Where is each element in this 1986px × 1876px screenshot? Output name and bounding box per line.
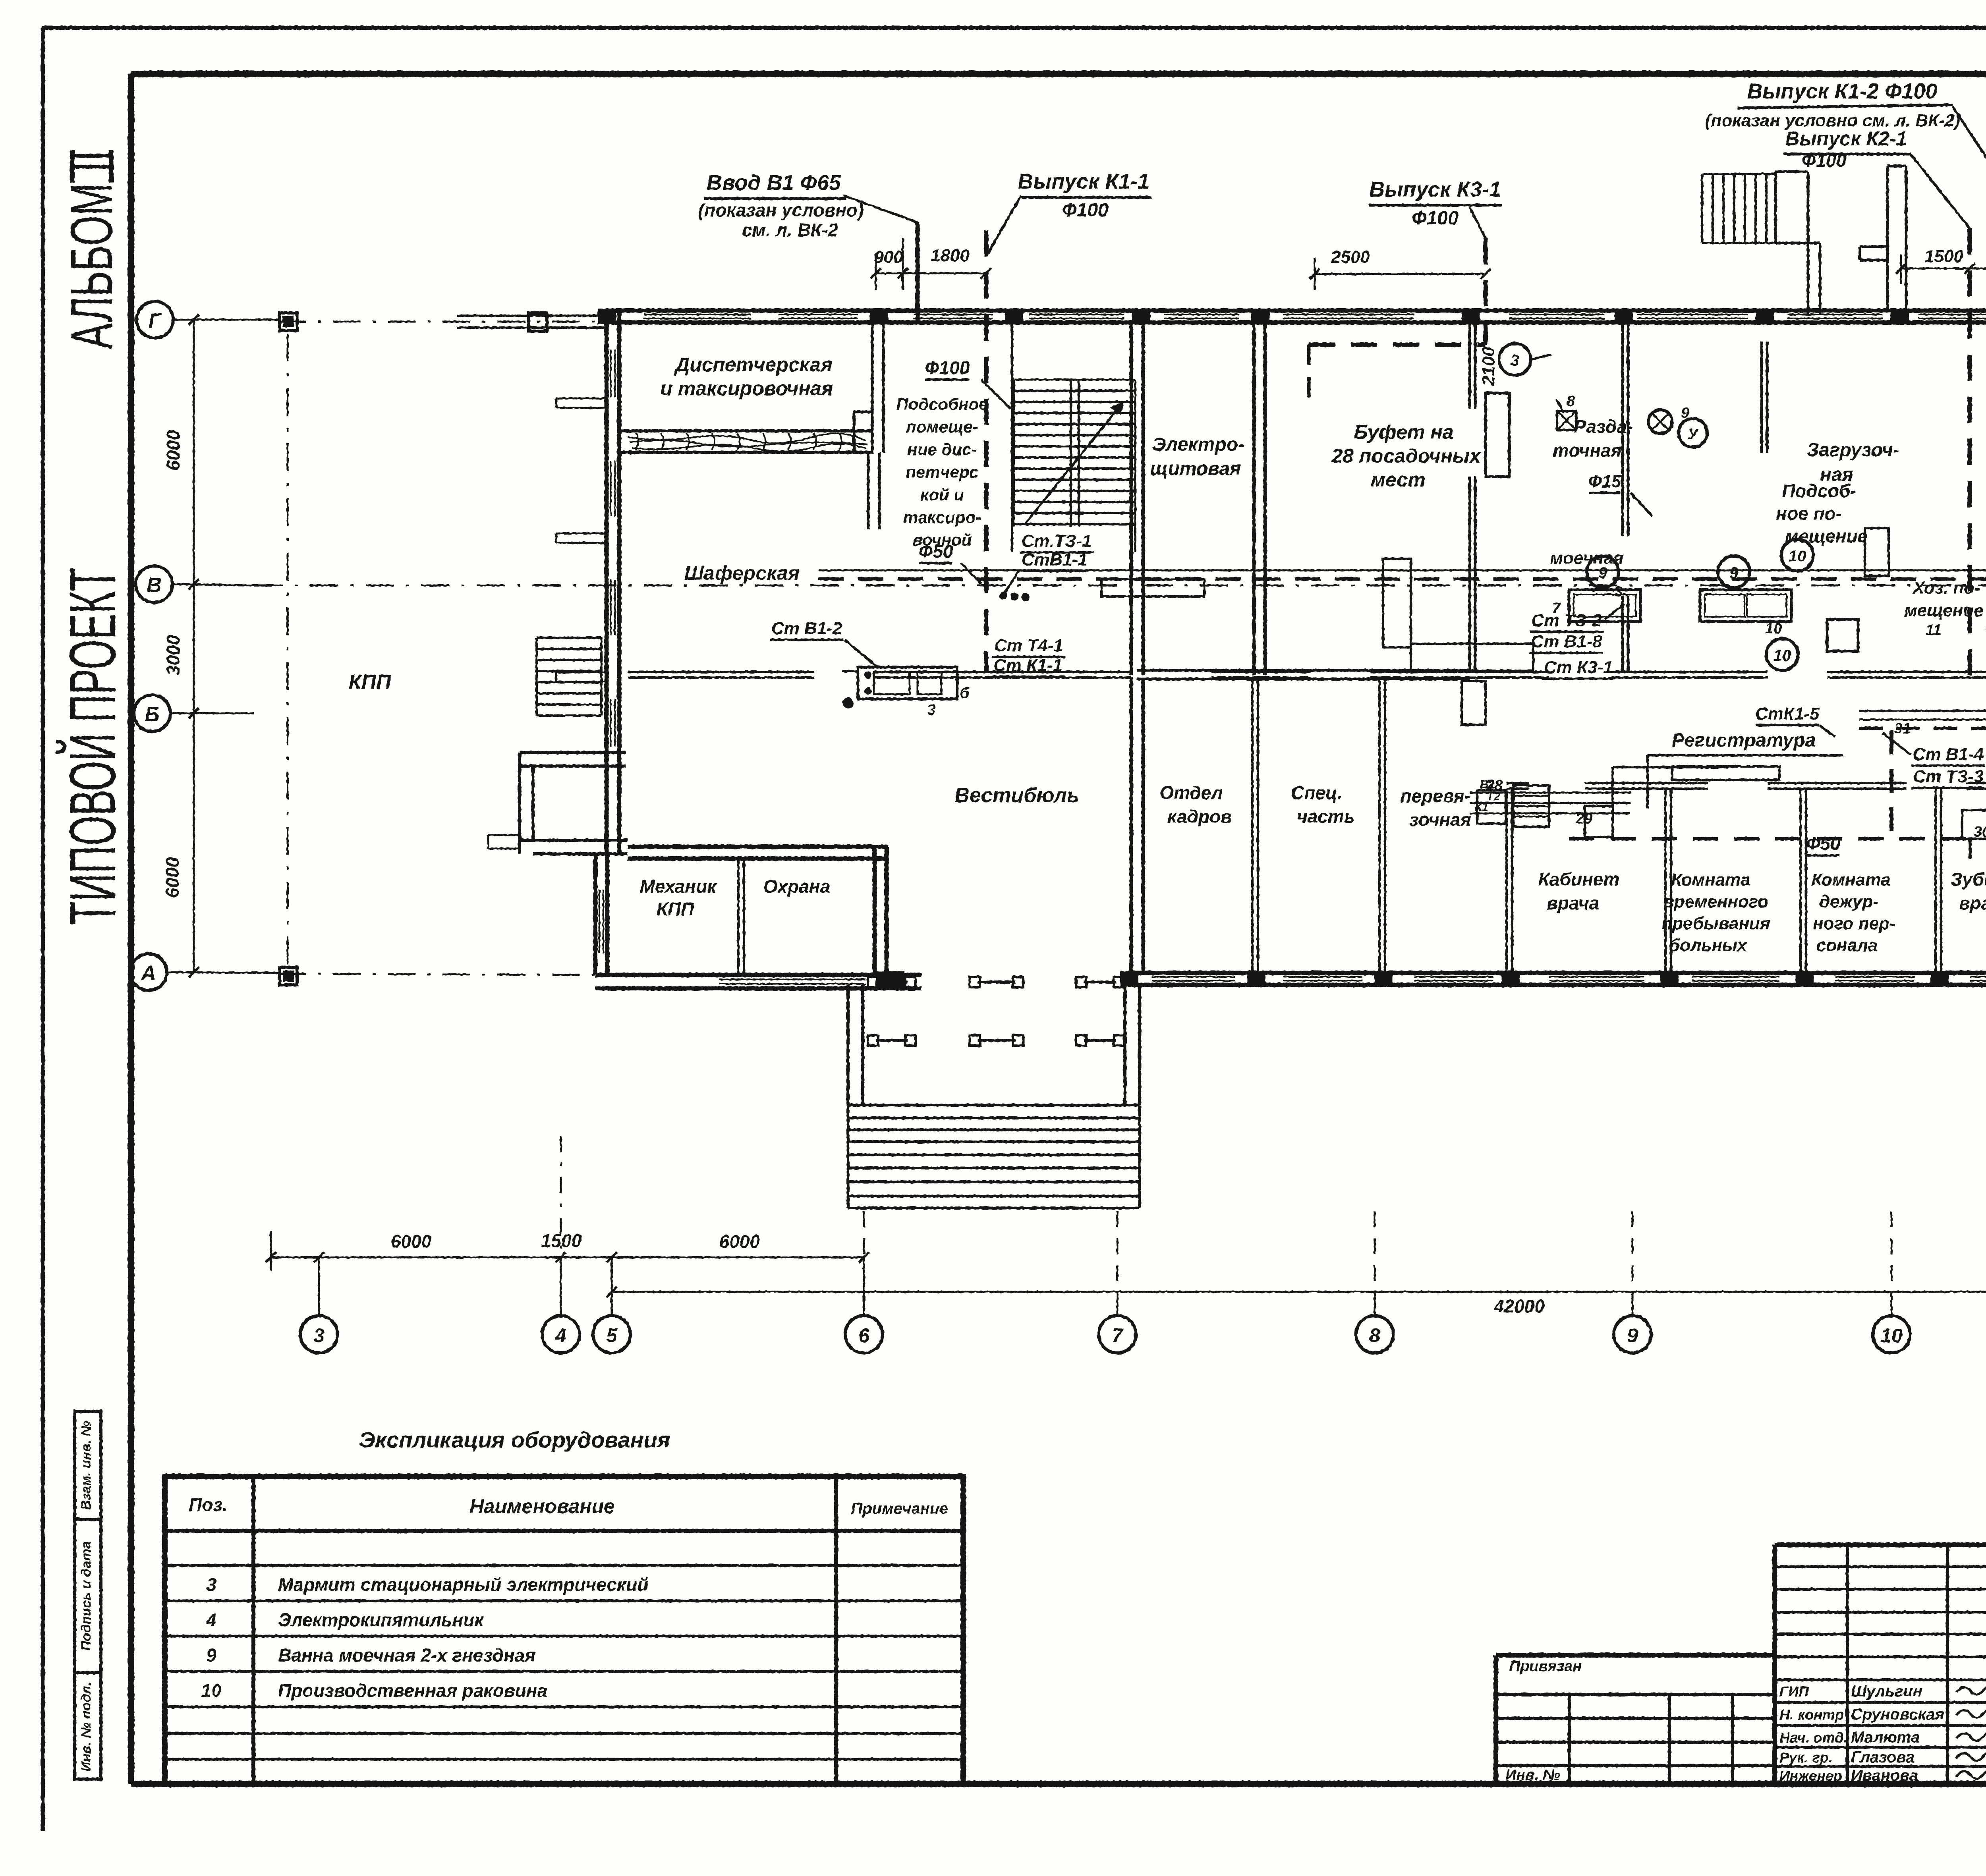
wall left of big stair (1011, 322, 1013, 552)
porch steps (848, 1104, 1140, 1107)
svg-text:мещение: мещение (1904, 601, 1983, 620)
buffet bench vertical (1383, 559, 1411, 647)
svg-text:42000: 42000 (1493, 1296, 1545, 1316)
central appendage walls (1886, 166, 1889, 311)
wash basins Моечная (1569, 590, 1640, 621)
svg-text:4: 4 (555, 1324, 566, 1347)
svg-text:АЛЬБОМ II: АЛЬБОМ II (58, 151, 125, 349)
svg-text:Ф100: Ф100 (925, 357, 970, 378)
left margin stamp strip (75, 1411, 101, 1779)
svg-text:Примечание: Примечание (851, 1500, 949, 1517)
svg-text:кой и: кой и (920, 485, 964, 504)
svg-text:Загрузоч-: Загрузоч- (1806, 440, 1899, 461)
svg-text:врача: врача (1547, 893, 1599, 913)
svg-text:СтВ1-1: СтВ1-1 (1022, 550, 1088, 569)
svg-text:Ф50: Ф50 (1806, 833, 1840, 854)
svg-text:Ст ТЗ-3: Ст ТЗ-3 (1913, 767, 1983, 786)
svg-text:Наименование: Наименование (469, 1495, 615, 1517)
svg-text:моечная: моечная (1550, 548, 1624, 568)
external stair left (axis 9) (1701, 174, 1703, 243)
svg-text:Подсобное: Подсобное (896, 395, 988, 413)
svg-text:Вестибюль: Вестибюль (954, 784, 1079, 807)
registry pipes cluster (1470, 792, 1631, 794)
wall 4193 (1664, 789, 1667, 973)
svg-text:таксиро-: таксиро- (903, 508, 981, 527)
svg-text:9: 9 (1681, 405, 1689, 421)
svg-text:Поз.: Поз. (189, 1494, 227, 1515)
svg-text:6000: 6000 (719, 1231, 760, 1252)
svg-text:3: 3 (206, 1574, 216, 1595)
svg-text:Ст В1-2: Ст В1-2 (771, 619, 842, 638)
svg-text:КПП: КПП (349, 671, 392, 694)
svg-text:8: 8 (1567, 393, 1575, 409)
Раздаточная/Подсобное wall (1621, 322, 1624, 536)
svg-text:3: 3 (1614, 583, 1623, 600)
axis 4 extension dash (560, 1136, 562, 1257)
svg-text:6000: 6000 (391, 1231, 432, 1252)
overall dimension 42000 (612, 1291, 1986, 1293)
small wall below partition (867, 452, 870, 529)
door leaf to Подсобное (854, 412, 872, 452)
lower band radiators (1477, 790, 1506, 824)
svg-text:Ст К3-1: Ст К3-1 (1544, 658, 1613, 677)
svg-text:Ст Т4-1: Ст Т4-1 (994, 636, 1063, 655)
svg-text:часть: часть (1297, 806, 1355, 827)
title block: signature grid (1775, 1542, 1986, 1547)
equipment table frame (165, 1476, 963, 1784)
boiler square 8 (1557, 411, 1576, 430)
wall Электрощитовая/Буфет (1252, 322, 1256, 675)
radiator stripes block (1513, 786, 1549, 827)
svg-text:точная: точная (1553, 440, 1621, 461)
svg-text:9: 9 (206, 1645, 216, 1666)
leaders to risers (1953, 106, 1986, 228)
corridor south wall (right half) (1507, 782, 1529, 784)
svg-text:Ф100: Ф100 (1062, 200, 1109, 221)
svg-text:Ст К1-1: Ст К1-1 (993, 656, 1063, 675)
svg-text:Б: Б (145, 703, 160, 726)
axis circle Г (137, 301, 173, 338)
fence axis line 3 vertical (287, 334, 289, 965)
axis circle 4 (542, 1316, 580, 1353)
svg-text:мещение: мещение (1785, 526, 1868, 546)
wood partition Диспетчерская/Шаферская (619, 429, 872, 432)
svg-text:зочная: зочная (1409, 809, 1471, 830)
svg-text:Экспликация оборудования: Экспликация оборудования (359, 1427, 670, 1452)
Буфет right wall (1468, 322, 1471, 409)
axis circle А (130, 954, 167, 990)
Подсобное right wall (1760, 342, 1763, 453)
north exterior wall (606, 309, 1986, 313)
svg-text:Н. контр: Н. контр (1779, 1706, 1844, 1723)
svg-text:10: 10 (1773, 647, 1791, 664)
secondary bundle right (1859, 710, 1986, 712)
wall right of Диспетчерская (871, 322, 874, 453)
svg-text:30: 30 (1974, 824, 1986, 840)
svg-text:Комната: Комната (1671, 870, 1750, 890)
svg-text:Выпуск К3-1: Выпуск К3-1 (1369, 178, 1501, 201)
svg-text:Комната: Комната (1811, 870, 1890, 890)
svg-text:Регистратура: Регистратура (1672, 730, 1816, 751)
svg-text:Ф100: Ф100 (1412, 208, 1459, 229)
svg-text:ного пер-: ного пер- (1813, 914, 1895, 933)
svg-text:Зубной: Зубной (1951, 869, 1986, 890)
svg-text:3: 3 (1511, 352, 1519, 369)
window stub at step wall (488, 834, 520, 836)
stair arrow (1025, 401, 1124, 524)
svg-text:Взам. инв. №: Взам. инв. № (79, 1421, 94, 1510)
svg-text:Ст ТЗ-2: Ст ТЗ-2 (1531, 611, 1602, 630)
svg-text:Выпуск К1-2 Ф100: Выпуск К1-2 Ф100 (1747, 79, 1937, 103)
wall Спец.часть/перевязочная (1378, 677, 1381, 973)
svg-text:4: 4 (206, 1610, 216, 1630)
bottom dimension line left (271, 1256, 864, 1258)
svg-text:мест: мест (1371, 469, 1426, 491)
dim 1500x3 (1901, 268, 1986, 270)
svg-text:ное по-: ное по- (1776, 503, 1842, 524)
axis line А (167, 972, 278, 973)
flag symbol 8 (1556, 399, 1564, 413)
west exterior wall (605, 311, 609, 854)
dim 2500 (1315, 273, 1486, 275)
west lower step wall (L) (520, 751, 626, 754)
svg-text:помеще-: помеще- (906, 417, 978, 436)
north wall piers (598, 309, 616, 324)
svg-text:28 посадочных: 28 посадочных (1331, 445, 1481, 467)
svg-text:Глазова: Глазова (1851, 1749, 1915, 1766)
svg-text:У: У (1688, 426, 1699, 443)
svg-text:Инженер: Инженер (1779, 1768, 1842, 1784)
riser Выпуск К1-1 dashed (987, 195, 1021, 254)
svg-text:9: 9 (1729, 564, 1739, 582)
svg-text:Шульгин: Шульгин (1851, 1683, 1922, 1700)
axis line Г (173, 319, 278, 321)
svg-text:8: 8 (1369, 1324, 1380, 1347)
раздаточная counter (1486, 393, 1509, 477)
svg-text:Ванна моечная 2-х гнездная: Ванна моечная 2-х гнездная (278, 1645, 535, 1666)
svg-text:Охрана: Охрана (763, 876, 830, 897)
перевязочная upper bench (1462, 681, 1486, 725)
svg-text:Подпись и дата: Подпись и дата (79, 1541, 94, 1651)
svg-text:3: 3 (313, 1324, 325, 1347)
svg-text:28: 28 (1486, 777, 1503, 794)
riser Ввод В1 (843, 195, 918, 222)
axis circle 3 (300, 1316, 338, 1353)
svg-text:Разда-: Разда- (1574, 416, 1633, 437)
vestibule right wall (1130, 677, 1133, 973)
svg-text:Диспетчерская: Диспетчерская (674, 353, 833, 376)
axis circle 8 (1356, 1316, 1393, 1353)
south exterior wall (main) (1128, 971, 1986, 975)
svg-text:Ст В1-4: Ст В1-4 (1913, 745, 1984, 764)
main pipes bundle (hot/cold) (818, 569, 1986, 571)
dashed К1 line lower (1569, 837, 1970, 841)
svg-text:7: 7 (1552, 600, 1561, 617)
svg-text:Нач. отд.: Нач. отд. (1779, 1729, 1847, 1746)
svg-text:ТИПОВОЙ ПРОЕКТ: ТИПОВОЙ ПРОЕКТ (56, 567, 129, 925)
wall 3793 (Кабинет врача left) (1505, 789, 1508, 973)
svg-text:кадров: кадров (1167, 806, 1232, 827)
svg-text:Инв. №: Инв. № (1505, 1767, 1560, 1783)
axis circle Б (134, 695, 170, 731)
wall 4873 (1934, 789, 1937, 973)
svg-text:и таксировочная: и таксировочная (660, 377, 833, 400)
axis circle 9 (1614, 1316, 1651, 1353)
big stairwell (1014, 390, 1135, 392)
КПП rooms block (Механик КПП / Охрана) (593, 854, 598, 975)
axis circle 7 (1099, 1316, 1136, 1353)
svg-text:Ф100: Ф100 (1802, 150, 1847, 171)
west outside steps (537, 637, 601, 639)
svg-text:Срунoвская: Срунoвская (1851, 1706, 1944, 1723)
svg-text:Мармит стационарный электрич: Мармит стационарный электрический (278, 1574, 649, 1595)
axis circle 6 (845, 1316, 883, 1353)
svg-text:6: 6 (858, 1324, 870, 1347)
wall 4533 (1799, 789, 1802, 973)
riser Выпуск К3-1 dashed (1470, 207, 1486, 238)
svg-text:см. л. ВК-2: см. л. ВК-2 (742, 220, 838, 240)
outer sheet border (41, 26, 1986, 30)
axis circle 5 (593, 1316, 630, 1353)
svg-text:Электро-: Электро- (1152, 434, 1244, 455)
svg-text:Инв. № подл.: Инв. № подл. (79, 1682, 94, 1772)
gate post 3 (axis A) (280, 967, 297, 985)
svg-text:3000: 3000 (163, 635, 184, 676)
threshold tie symbols (876, 981, 908, 984)
svg-text:Малюта: Малюта (1851, 1729, 1920, 1746)
small sink хоз (1827, 620, 1858, 651)
left dimension chain line (193, 320, 195, 972)
svg-text:Производственная раковина: Производственная раковина (278, 1680, 547, 1701)
svg-text:1500: 1500 (541, 1230, 582, 1251)
svg-text:врач: врач (1959, 893, 1986, 913)
svg-text:перевя-: перевя- (1401, 786, 1471, 806)
corridor north wall (628, 671, 814, 673)
porch east wall (1123, 985, 1126, 1105)
buffet south wall (1137, 669, 1470, 672)
svg-text:10: 10 (1789, 548, 1806, 565)
gate post 2 (529, 313, 547, 331)
svg-text:Привязан: Привязан (1509, 1658, 1582, 1675)
svg-text:ГИП: ГИП (1779, 1683, 1809, 1700)
svg-text:Шаферская: Шаферская (684, 562, 800, 584)
svg-text:б: б (960, 685, 970, 702)
svg-text:пребывания: пребывания (1661, 914, 1770, 933)
svg-text:11: 11 (1926, 622, 1941, 639)
porch west wall (846, 985, 850, 1105)
canopy line at axis Г (457, 315, 606, 317)
svg-text:6000: 6000 (163, 430, 184, 471)
section mark 3 (1499, 344, 1531, 375)
svg-text:В: В (147, 574, 162, 597)
svg-text:29: 29 (1575, 811, 1592, 827)
svg-text:Механик: Механик (639, 876, 717, 897)
svg-text:Иванова: Иванова (1851, 1767, 1918, 1784)
svg-text:Ст.ТЗ-1: Ст.ТЗ-1 (1022, 531, 1092, 551)
svg-text:А: А (140, 962, 156, 985)
dim 900/1800 (876, 272, 986, 274)
svg-text:больных: больных (1669, 936, 1748, 955)
svg-text:9: 9 (1627, 1324, 1638, 1347)
svg-text:10: 10 (1765, 620, 1782, 637)
svg-text:7: 7 (1112, 1324, 1124, 1347)
svg-text:Электрокипятильник: Электрокипятильник (278, 1610, 485, 1630)
svg-text:2100: 2100 (1479, 347, 1498, 386)
axis circle В (136, 566, 172, 602)
risers К1-2 К2-1 К1-3 dashed (1968, 228, 1972, 675)
svg-text:Спец.: Спец. (1291, 782, 1342, 803)
svg-text:Ст В1-8: Ст В1-8 (1531, 632, 1602, 651)
Шаферская sink group (858, 667, 957, 699)
svg-text:(показан условно): (показан условно) (698, 200, 864, 220)
west wall window sill stubs (556, 398, 607, 400)
svg-text:Буфет на: Буфет на (1354, 421, 1454, 443)
svg-text:дежур-: дежур- (1819, 892, 1879, 911)
svg-text:временного: временного (1663, 892, 1768, 911)
svg-text:Выпуск К2-1: Выпуск К2-1 (1785, 127, 1907, 150)
svg-text:Выпуск К1-1: Выпуск К1-1 (1018, 170, 1149, 193)
buffet bench horizontal (1411, 644, 1533, 671)
wall right of big stair (1130, 322, 1133, 675)
svg-text:Кабинет: Кабинет (1538, 869, 1620, 890)
svg-text:5: 5 (606, 1324, 618, 1347)
axis circle 10 (1873, 1316, 1910, 1353)
svg-text:ние дис-: ние дис- (907, 440, 977, 459)
svg-text:6000: 6000 (162, 857, 183, 898)
svg-text:1500: 1500 (1924, 247, 1963, 266)
wall Отдел кадров/Спец.часть (1251, 677, 1254, 973)
svg-text:ная: ная (1820, 464, 1853, 485)
south wall of КПП block (595, 973, 922, 977)
title block: Привязан box (1496, 1653, 1775, 1658)
svg-text:щитовая: щитовая (1150, 458, 1241, 479)
svg-text:1800: 1800 (931, 246, 970, 265)
svg-text:31: 31 (1894, 720, 1911, 737)
axis line В stub (172, 584, 254, 585)
fixture circles (1587, 556, 1619, 588)
svg-text:Рук. гр.: Рук. гр. (1779, 1749, 1833, 1766)
gate post 1 (280, 313, 297, 330)
svg-text:петчерс: петчерс (906, 463, 978, 481)
axis line Б stub (170, 712, 254, 714)
svg-text:3: 3 (927, 702, 935, 718)
svg-text:СтК1-5: СтК1-5 (1755, 704, 1820, 724)
svg-text:Ввод В1 Ф65: Ввод В1 Ф65 (707, 171, 841, 195)
svg-text:10: 10 (1880, 1324, 1903, 1347)
registry counter (1611, 767, 1614, 812)
svg-text:Отдел: Отдел (1159, 782, 1223, 803)
svg-text:Ф50: Ф50 (918, 541, 953, 562)
svg-text:Г: Г (149, 309, 162, 332)
svg-text:КПП: КПП (657, 899, 694, 919)
axis extension dashes 6-10 (863, 1211, 865, 1292)
svg-text:сонала: сонала (1816, 936, 1878, 955)
riser axis10 dash lower (1889, 731, 1893, 839)
svg-text:10: 10 (201, 1680, 222, 1701)
svg-text:900: 900 (874, 247, 903, 267)
svg-text:Хоз. по-: Хоз. по- (1912, 578, 1980, 598)
inner drawing frame (131, 71, 1986, 77)
svg-text:Ф15: Ф15 (1588, 472, 1621, 491)
svg-text:2500: 2500 (1331, 247, 1370, 267)
ext stair L-wall (1775, 170, 1808, 173)
bench row left (1101, 579, 1204, 596)
